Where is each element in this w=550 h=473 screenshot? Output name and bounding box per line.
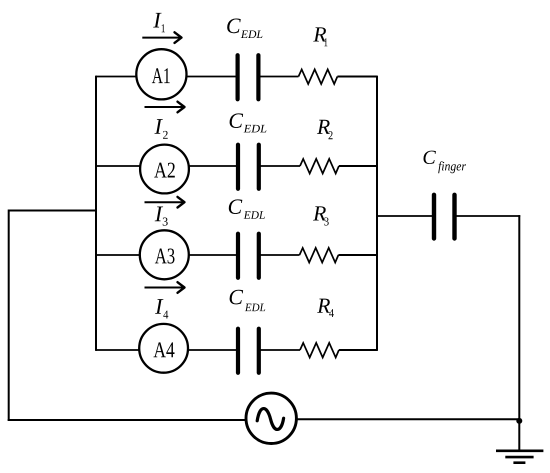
wire row4 bus-to-A4 — [96, 349, 141, 351]
label R3 — [313, 206, 326, 220]
arrow I1 — [142, 37, 181, 39]
label I2 — [154, 119, 162, 134]
wire bottom right — [296, 418, 519, 420]
wire row2 R2-to-bus — [339, 165, 377, 167]
capacitor C_EDL row2 right plate — [257, 145, 261, 189]
wire row4 R4-to-bus — [339, 349, 377, 351]
wire outer-left vertical — [8, 210, 10, 421]
wire row1 A1-to-cap — [184, 76, 237, 78]
wire row2 bus-to-A2 — [96, 165, 142, 167]
wire row3 R3-to-bus — [338, 254, 377, 256]
capacitor C_EDL row3 left plate — [236, 234, 240, 278]
capacitor C_EDL row3 right plate — [257, 234, 261, 278]
wire Cfinger-to-right — [456, 215, 520, 217]
wire right outer vertical — [518, 215, 520, 450]
wire row3 bus-to-A3 — [96, 254, 142, 256]
capacitor C_EDL row4 left plate — [236, 329, 240, 373]
capacitor C_finger right plate — [452, 195, 456, 239]
capacitor C_EDL row1 left plate — [236, 55, 240, 99]
resistor R4 zigzag — [300, 343, 339, 358]
ammeter A4 — [139, 324, 188, 373]
resistor R2 zigzag — [300, 159, 339, 174]
label R2 — [317, 120, 330, 134]
wire outer-left connector horizontal — [9, 210, 96, 212]
wire row1 bus-to-A1 — [96, 76, 140, 78]
node junction dot — [516, 418, 522, 424]
wire bottom left — [8, 419, 247, 421]
label R1 — [313, 27, 326, 41]
ammeter A2 — [140, 145, 189, 194]
wire bus-to-Cfinger — [377, 215, 433, 217]
sine wave — [257, 409, 283, 430]
wire row3 A3-to-cap — [187, 254, 237, 256]
label C_EDL row1 — [227, 19, 241, 34]
ammeter A1 — [136, 49, 186, 99]
label I1 — [153, 13, 161, 28]
wire row3 cap-to-R3 — [260, 254, 300, 256]
wire row1 R1-to-bus — [337, 76, 377, 78]
label C_EDL row2 — [230, 113, 244, 128]
arrow I3 — [145, 201, 185, 203]
wire row1 cap-to-R1 — [260, 76, 299, 78]
wire row4 cap-to-R4 — [260, 349, 301, 351]
wire row2 A2-to-cap — [187, 165, 237, 167]
wire row4 A4-to-cap — [186, 349, 237, 351]
label C_finger — [424, 151, 436, 164]
capacitor C_EDL row2 left plate — [236, 145, 240, 189]
label C_EDL row3 — [229, 199, 243, 214]
arrow I2 — [145, 106, 185, 108]
label I3 — [155, 207, 163, 222]
wire left bus vertical — [95, 76, 97, 351]
AC source — [246, 393, 296, 443]
label C_EDL row4 — [230, 290, 244, 305]
capacitor C_EDL row1 right plate — [256, 55, 260, 99]
wire row2 cap-to-R2 — [260, 165, 301, 167]
ammeter A3 — [140, 230, 189, 279]
label R4 — [317, 299, 330, 313]
wire right bus vertical — [376, 76, 378, 351]
ground — [496, 449, 543, 452]
arrow I4 — [145, 287, 185, 289]
resistor R3 zigzag — [300, 248, 339, 263]
label I4 — [155, 299, 163, 314]
capacitor C_EDL row4 right plate — [257, 329, 261, 373]
capacitor C_finger left plate — [432, 195, 436, 239]
resistor R1 zigzag — [299, 69, 338, 84]
